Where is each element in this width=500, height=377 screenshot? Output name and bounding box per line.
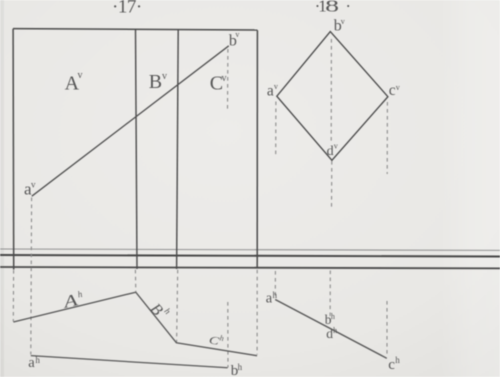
svg-text:a: a	[267, 82, 274, 99]
svg-text:v: v	[162, 71, 167, 82]
svg-text:d: d	[327, 144, 334, 159]
svg-text:h: h	[238, 362, 243, 372]
svg-text:·17·: ·17·	[112, 0, 142, 18]
svg-text:v: v	[235, 30, 239, 39]
svg-text:c: c	[388, 357, 395, 373]
svg-text:v: v	[334, 142, 338, 151]
svg-text:h: h	[395, 355, 400, 365]
svg-text:v: v	[222, 73, 227, 84]
svg-text:h: h	[35, 355, 40, 365]
svg-text:·: ·	[345, 0, 351, 15]
svg-text:v: v	[31, 180, 36, 190]
svg-text:v: v	[396, 83, 400, 92]
svg-text:c: c	[389, 82, 396, 99]
svg-text:v: v	[274, 82, 278, 91]
svg-text:h: h	[333, 326, 337, 335]
svg-text:v: v	[341, 17, 345, 26]
svg-text:a: a	[28, 355, 35, 371]
svg-text:h: h	[331, 312, 335, 321]
svg-text:h: h	[273, 290, 278, 300]
svg-text:v: v	[78, 70, 83, 81]
svg-text:8: 8	[325, 0, 339, 15]
svg-text:B: B	[149, 71, 162, 93]
